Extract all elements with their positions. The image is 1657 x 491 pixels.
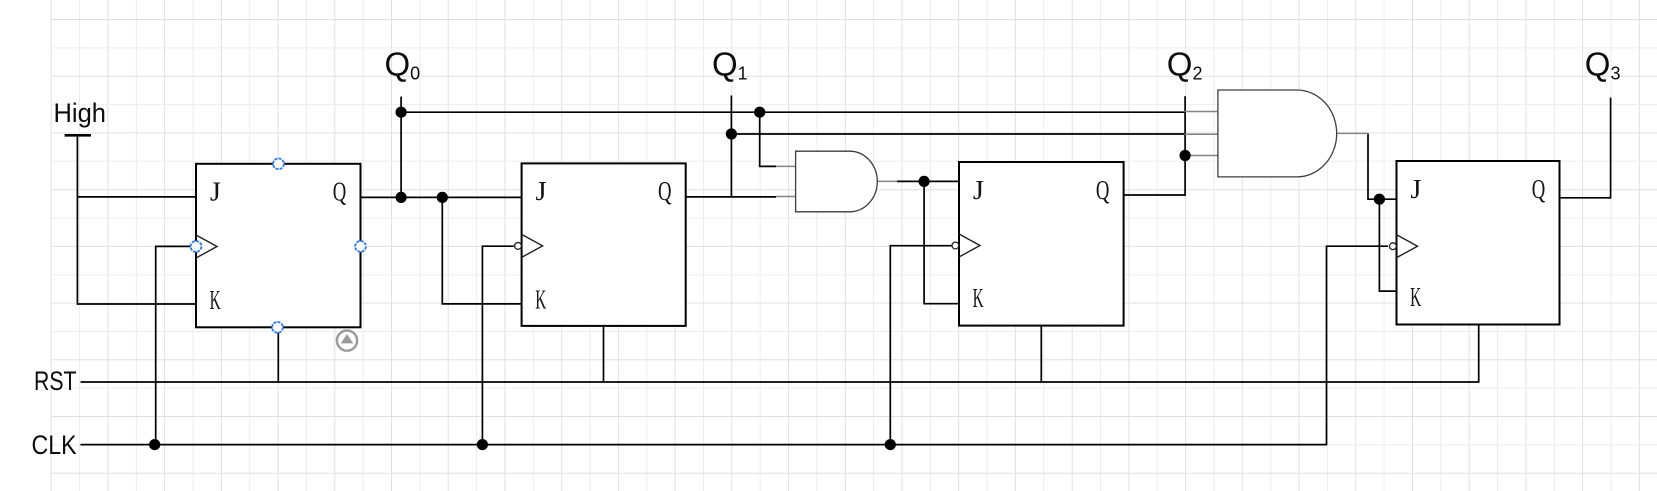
wire U1 output to FF3 J bbox=[897, 180, 961, 182]
AND gate U2 (3-input) bbox=[1218, 90, 1337, 177]
svg-text:CLK: CLK bbox=[32, 430, 77, 460]
wire RST stub FF2 bbox=[603, 326, 605, 383]
flip-flop U3 (JK flip-flop 1): body bbox=[196, 164, 361, 327]
AND gate U2 output stub bbox=[1336, 132, 1368, 134]
flip-flop U4 (JK flip-flop 2): clock edge triangle bbox=[522, 234, 543, 257]
svg-text:J: J bbox=[536, 176, 547, 206]
svg-text:K: K bbox=[535, 284, 546, 314]
selection handle top of U3 bbox=[273, 158, 284, 169]
power symbol High: bar bbox=[65, 134, 91, 137]
wire drop to FF4 K bbox=[1378, 199, 1380, 291]
node Q1 rail bbox=[726, 128, 737, 139]
AND gate U1 output stub bbox=[877, 180, 897, 182]
flip-flop U3 (JK flip-flop 1): clock edge triangle bbox=[196, 235, 217, 258]
wire High vertical bbox=[76, 134, 78, 304]
wire CLK bus bbox=[80, 444, 1326, 446]
svg-text:Q: Q bbox=[1532, 174, 1546, 204]
wire Q0 riser to label bbox=[400, 97, 402, 199]
wire CLK riser to FF1 bbox=[155, 246, 157, 445]
rotate handle below U3 bbox=[337, 331, 357, 351]
flip-flop U4 (JK flip-flop 2): body bbox=[522, 163, 686, 326]
flip-flop U4 (JK flip-flop 2): clock bubble bbox=[515, 243, 522, 250]
selection handle left of U3 (over clock bubble) bbox=[191, 241, 202, 252]
wire CLK riser to FF3 bbox=[889, 246, 891, 446]
wire RST stub FF1 bbox=[277, 327, 279, 383]
wire into FF3 K bbox=[923, 303, 959, 305]
wire U1 output drop to FF3 K bbox=[923, 181, 925, 303]
AND gate U2 input 1 stub bbox=[1185, 111, 1219, 113]
wire Q0 drop to AND gate U1 bbox=[759, 112, 761, 166]
svg-text:RST: RST bbox=[34, 366, 77, 396]
wire CLK riser to FF4 bbox=[1326, 246, 1328, 445]
wire Q0 to AND gate U2 input 1 bbox=[400, 111, 1184, 113]
svg-text:Q: Q bbox=[658, 176, 672, 206]
wire Q1 to AND gate U2 input 2 bbox=[731, 133, 1185, 135]
node U2 output branch bbox=[1374, 194, 1385, 205]
node U1 output branch bbox=[919, 176, 930, 187]
node Q0 at FF1 Q output bbox=[396, 192, 407, 203]
wire High to FF1 K bbox=[77, 303, 197, 305]
decorative grid (not labelled further) bbox=[50, 0, 52, 491]
flip-flop U6 (JK flip-flop 4): clock bubble bbox=[1390, 243, 1397, 250]
wire High to FF1 J bbox=[77, 196, 196, 198]
svg-text:J: J bbox=[1410, 174, 1421, 204]
svg-text:High: High bbox=[54, 98, 107, 128]
wire RST bus bbox=[81, 381, 1479, 383]
node Q0 branch to FF2 K bbox=[437, 192, 448, 203]
wire U2 output to FF4 J bbox=[1367, 198, 1396, 200]
wire Q1: FF2 Q to AND gate U1 input 2 bbox=[686, 196, 776, 198]
wire Q3: FF4 Q to riser bbox=[1560, 197, 1611, 199]
wire CLK into FF1 clock bbox=[155, 245, 191, 247]
wire Q0 into AND gate U1 input 1 bbox=[759, 165, 776, 167]
wire CLK riser to FF2 bbox=[481, 246, 483, 445]
AND gate U1 input 1 stub bbox=[776, 165, 796, 167]
node CLK at FF3 riser bbox=[885, 439, 896, 450]
wire Q1 riser to label bbox=[730, 96, 732, 197]
wire RST stub FF3 bbox=[1040, 326, 1042, 383]
wire Q0 into FF2 K bbox=[442, 303, 522, 305]
flip-flop U6 (JK flip-flop 4): clock edge triangle bbox=[1397, 235, 1418, 258]
wire into FF4 K bbox=[1379, 290, 1397, 292]
selection handle bottom of U3 bbox=[272, 322, 283, 333]
node Q0 to U1 bbox=[754, 107, 765, 118]
wire Q2: FF3 Q to riser bbox=[1124, 194, 1186, 196]
node CLK at FF2 riser bbox=[477, 439, 488, 450]
AND gate U1 input 2 stub bbox=[776, 196, 796, 198]
svg-text:K: K bbox=[973, 283, 984, 313]
wire CLK into FF3 clock bbox=[890, 245, 952, 247]
selection handle right of U3 bbox=[355, 241, 366, 252]
svg-text:Q: Q bbox=[333, 177, 347, 207]
AND gate U2 input 2 stub bbox=[1185, 133, 1219, 135]
wire Q0 drop to FF2 K bbox=[441, 197, 443, 304]
node Q2 to U2 bbox=[1180, 150, 1191, 161]
node CLK at FF1 riser bbox=[149, 439, 160, 450]
wire U2 output drop bbox=[1367, 133, 1369, 199]
AND gate U1 (2-input) bbox=[796, 151, 878, 212]
svg-text:K: K bbox=[210, 285, 221, 315]
svg-text:J: J bbox=[210, 177, 221, 207]
wire Q3 riser to label bbox=[1610, 98, 1612, 199]
node Q0 top rail bbox=[396, 107, 407, 118]
AND gate U2 input 3 stub bbox=[1185, 155, 1218, 157]
svg-text:Q: Q bbox=[1096, 175, 1110, 205]
wire CLK into FF4 clock bbox=[1326, 245, 1388, 247]
wire Q0: FF1 Q to FF2 J bbox=[361, 196, 522, 198]
svg-text:J: J bbox=[973, 175, 984, 205]
wire Q2 riser to label bbox=[1184, 96, 1186, 196]
flip-flop U5 (JK flip-flop 3): body bbox=[959, 162, 1124, 326]
flip-flop U5 (JK flip-flop 3): clock bubble bbox=[952, 242, 959, 249]
flip-flop U6 (JK flip-flop 4): body bbox=[1397, 161, 1560, 325]
wire RST stub FF4 bbox=[1478, 325, 1480, 383]
wire CLK into FF2 clock bbox=[482, 245, 514, 247]
flip-flop U5 (JK flip-flop 3): clock edge triangle bbox=[959, 234, 980, 257]
svg-text:K: K bbox=[1410, 282, 1421, 312]
